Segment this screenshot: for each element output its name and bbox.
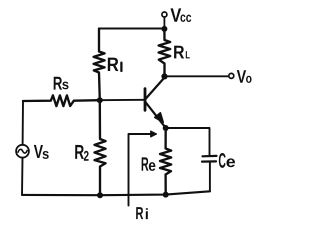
resistor RL bbox=[159, 29, 171, 76]
wire top rail R1 to Vcc node bbox=[99, 27, 164, 29]
svg-text:L: L bbox=[185, 49, 190, 61]
svg-text:s: s bbox=[42, 147, 49, 163]
label Vcc bbox=[170, 5, 192, 27]
junction dot R2 bottom node bbox=[97, 192, 103, 198]
resistor Re bbox=[160, 128, 171, 195]
label R1 bbox=[107, 54, 122, 76]
terminal Vo bbox=[229, 73, 234, 78]
svg-text:2: 2 bbox=[83, 149, 89, 165]
svg-text:o: o bbox=[246, 71, 252, 86]
wire base node to transistor base bbox=[100, 99, 145, 101]
transistor Q1 base bar bbox=[144, 89, 147, 111]
svg-text:R: R bbox=[107, 54, 119, 76]
label Vo bbox=[237, 66, 252, 87]
label R2 bbox=[74, 142, 89, 165]
Ri input arrow marker bbox=[129, 131, 157, 206]
transistor Q1 emitter lead with arrow bbox=[146, 103, 165, 128]
terminal Vcc bbox=[162, 12, 167, 27]
svg-text:R: R bbox=[135, 203, 143, 223]
svg-text:s: s bbox=[62, 76, 70, 92]
source Vs bbox=[16, 145, 29, 158]
label RL bbox=[173, 41, 191, 62]
label Rs bbox=[53, 73, 70, 94]
svg-text:e: e bbox=[226, 154, 236, 171]
resistor Rs bbox=[23, 95, 100, 106]
junction dot collector node bbox=[161, 73, 167, 79]
junction dot Vcc node bbox=[161, 26, 167, 32]
transistor Q1 collector lead bbox=[146, 79, 164, 99]
label Ce bbox=[218, 150, 236, 173]
wire bottom rail bbox=[22, 191, 210, 195]
junction dot base node bbox=[97, 97, 103, 103]
junction dot Re bottom node bbox=[163, 192, 169, 198]
resistor R1 bbox=[94, 29, 105, 101]
label Re bbox=[141, 154, 156, 176]
svg-text:e: e bbox=[148, 158, 156, 175]
wire left branch top (Rs corner to Vs) bbox=[22, 101, 24, 145]
wire left branch bottom (Vs to ground rail) bbox=[21, 158, 24, 195]
label Ri bbox=[135, 203, 149, 223]
capacitor Ce bbox=[202, 156, 217, 191]
svg-text:R: R bbox=[173, 41, 185, 62]
svg-text:cc: cc bbox=[180, 10, 192, 25]
junction dot emitter node bbox=[163, 125, 169, 131]
resistor R2 bbox=[95, 100, 106, 195]
label Vs bbox=[34, 142, 50, 163]
svg-text:i: i bbox=[145, 206, 149, 223]
wire collector node to Vo terminal bbox=[165, 75, 229, 77]
wire emitter node to capacitor Ce bbox=[166, 128, 210, 156]
